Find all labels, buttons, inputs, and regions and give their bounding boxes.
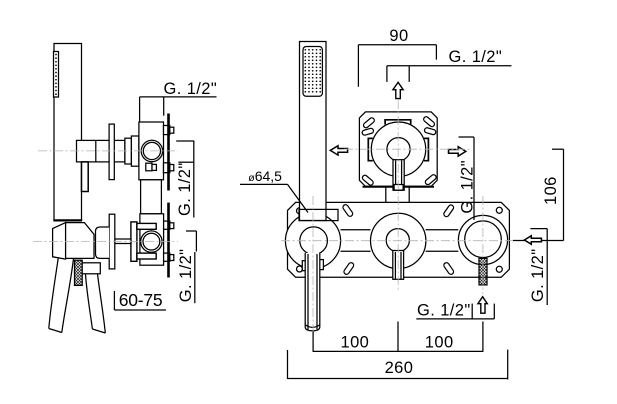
bottom valve right stub lower (170, 255, 174, 261)
top valve knob inner circle (143, 142, 160, 159)
svg-text:260: 260 (385, 359, 414, 377)
escutcheon flange, bottom valve (side view) (109, 214, 115, 269)
top valve stem detail 2 (152, 164, 156, 170)
dimension G 1/2 top-left: extension line right (163, 97, 165, 116)
dimension label G 1/2 upper-right of valve: tick 2 (178, 161, 193, 163)
dimension 90: left extension (357, 45, 359, 87)
centerline top valve (side view) (38, 150, 178, 152)
extension line body centerline to 106 (513, 240, 564, 242)
hand shower handle bottom edge (thick) (53, 219, 82, 221)
svg-text:100: 100 (425, 334, 454, 352)
hose right band (86, 274, 106, 333)
dimension label G 1/2 lower-right of valve: tick (186, 230, 196, 232)
middle knob stem (393, 251, 404, 280)
plate knob inner circle (387, 138, 410, 161)
body slot bottom-left (343, 262, 355, 276)
svg-text:106: 106 (542, 176, 560, 205)
body slot top-left (342, 204, 354, 218)
spray face dots (55, 54, 57, 95)
middle knob outer circle (371, 213, 426, 268)
body rail lines left gap (341, 230, 371, 251)
dimension G 1/2 top: drop line left (386, 66, 388, 82)
dimension 100 left: line (313, 350, 398, 352)
vertical centerline middle (397, 100, 399, 292)
middle knob stem inner lines (395, 252, 401, 279)
flow arrow left (right label) (524, 236, 541, 245)
svg-text:100: 100 (341, 334, 370, 352)
dimension 106: top tick (552, 148, 564, 150)
top valve right tab upper (164, 126, 170, 135)
top valve right stub upper (170, 127, 174, 133)
holder block (66, 223, 94, 259)
vertical centerline left knob (312, 196, 314, 335)
holder cup (53, 223, 66, 260)
plate knob handle stem (393, 160, 404, 191)
left lever handle (305, 253, 320, 331)
leader o64,5: underline (240, 183, 288, 185)
dimension label G 1/2 upper-right of valve: tick (176, 140, 194, 142)
bottom valve knob outer circle (141, 231, 162, 252)
bottom valve knob inner circle (143, 233, 160, 250)
left lever inner lines (308, 254, 317, 330)
spray face strip (side view) (54, 52, 59, 98)
top valve stem detail below knob (146, 163, 152, 171)
svg-text:G. 1/2": G. 1/2" (449, 48, 503, 66)
flow arrow right (plate right) (449, 147, 466, 156)
hose nut (hatched) (75, 260, 83, 285)
top valve right stub lower (170, 165, 174, 171)
dimension 100 right: line (398, 350, 483, 352)
leader o64,5: diagonal (288, 184, 309, 212)
left knob inner circle (300, 227, 328, 255)
square escutcheon plate (359, 112, 437, 186)
spray plate dot grid (front view) (304, 49, 321, 93)
yoke left column (131, 222, 137, 261)
left knob outer circle (285, 213, 340, 268)
shower holder rect (299, 209, 338, 220)
dimension label G 1/2 upper-right of valve: underline (193, 141, 195, 218)
horizontal centerline square plate (344, 148, 472, 150)
right knob inner circle (465, 221, 502, 258)
dimension label G 1/2 lower-right of valve: underline (194, 252, 196, 303)
dimension 100 left tick (312, 332, 314, 352)
dimension 260 right tick (507, 350, 509, 380)
dimension 100 middle tick (397, 322, 399, 353)
body screw bottom-right (496, 266, 502, 272)
dimension G 1/2 bottom: tick left (471, 304, 473, 319)
top valve knob outer circle (141, 140, 162, 161)
dimension 100 right tick (482, 322, 484, 352)
dimension label G 1/2 right of plate: tick (459, 136, 475, 138)
plate bottom edge (thick) (363, 186, 435, 188)
escutcheon flange, top valve (side view) (109, 124, 114, 180)
built-in body plate (288, 202, 510, 277)
bottom valve body (side view) (140, 214, 164, 265)
hand shower handle (side view) (54, 44, 82, 221)
body slot bottom-right (443, 262, 455, 276)
dimension G 1/2 bottom: tick right (493, 304, 495, 319)
dimension G 1/2 top: drop line right (408, 66, 410, 82)
right knob outlet stem (hatched) (479, 258, 487, 285)
dimension 60-75 tick (113, 291, 115, 310)
cartridge step 1 (125, 138, 131, 164)
yoke top arm (137, 223, 156, 229)
svg-text:G. 1/2": G. 1/2" (458, 160, 476, 214)
bottom valve right tab lower (164, 253, 170, 261)
hose left band (49, 259, 74, 333)
dimension G 1/2 bottom: underline (416, 318, 494, 320)
plate slot top-right a (423, 116, 436, 128)
wall plate line, bottom (body side view) (167, 203, 170, 278)
bottom valve right tab upper (164, 221, 170, 229)
svg-text:G. 1/2": G. 1/2" (176, 162, 194, 216)
body rail lines right gap (426, 230, 459, 251)
dimension 90: right extension (435, 45, 437, 60)
plate slot top-right b (424, 127, 436, 135)
svg-text:G. 1/2": G. 1/2" (164, 80, 218, 98)
svg-text:90: 90 (389, 27, 408, 45)
cartridge step 2 (131, 136, 139, 166)
plate stem end cap (394, 185, 403, 191)
stub pipe to holder (115, 239, 131, 244)
dimension G 1/2 top: underline (387, 65, 512, 67)
body screw top-right (496, 207, 502, 213)
dimension 90: line (358, 44, 436, 46)
plate right bracket (424, 138, 428, 160)
elbow bar under box (82, 162, 89, 192)
plate big circle (371, 122, 425, 176)
mixer inlet box (side view) (77, 140, 125, 162)
plate slot bottom-right (424, 174, 437, 186)
plate stem inner lines (396, 161, 402, 185)
left lever cap arc (305, 325, 320, 328)
plate top bracket (385, 120, 411, 125)
horizontal centerline body (281, 240, 518, 242)
yoke bottom arm (137, 253, 156, 259)
dimension label G 1/2 right lower: underline (546, 229, 548, 305)
mixer box divider (95, 140, 97, 162)
hose elbow block (82, 263, 100, 274)
top valve body (side view) (139, 122, 164, 180)
dimension 106: line (563, 149, 565, 240)
flow arrow up (top) (393, 82, 403, 98)
dimension 260: line (288, 378, 508, 380)
dimension G 1/2 top-left: underline (140, 96, 217, 98)
vertical centerline right knob (482, 196, 484, 294)
left lever fork right (319, 260, 323, 270)
holder wall base (96, 227, 110, 258)
flow arrow left (plate left) (330, 146, 347, 155)
dimension label G 1/2 lower-right of valve: leader (195, 231, 197, 252)
dimension 60-75 line (114, 309, 166, 311)
svg-text:G. 1/2": G. 1/2" (417, 302, 471, 320)
svg-text:G. 1/2": G. 1/2" (529, 248, 547, 302)
top valve right tab lower (164, 163, 170, 173)
body screw top-left (297, 208, 303, 214)
plate slot top-left a (363, 117, 376, 129)
centerline bottom valve (side view) (33, 241, 178, 243)
bottom valve right stub upper (170, 223, 174, 229)
plate slot bottom-left (361, 174, 374, 186)
flow arrow up (bottom) (478, 297, 487, 314)
left lever fork left (302, 261, 306, 271)
dimension G 1/2 top-left: extension line left (139, 97, 141, 122)
dimension 260 left tick (287, 350, 289, 379)
body slot top-right (443, 204, 455, 218)
spray plate (front view) (303, 47, 322, 97)
pipe between valves (141, 180, 162, 214)
dimension label G 1/2 right of plate: underline (473, 137, 475, 220)
svg-text:60-75: 60-75 (119, 290, 163, 310)
right knob outer circle (458, 215, 507, 264)
hand shower (front view) (300, 42, 327, 221)
middle knob inner circle (386, 229, 409, 252)
svg-text:G. 1/2": G. 1/2" (177, 249, 195, 303)
plate left bracket (368, 138, 373, 160)
plate slot top-left b (362, 128, 374, 136)
pipe from plate to body (386, 186, 409, 213)
dimension label G 1/2 right lower: tick (530, 228, 547, 230)
body screw bottom-left (297, 266, 303, 272)
wall plate line, top (square escutcheon side view) (167, 114, 170, 191)
